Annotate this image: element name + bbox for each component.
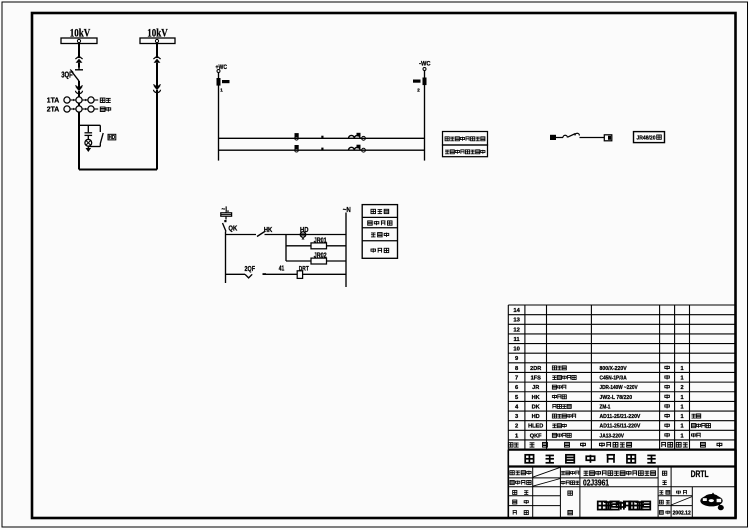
svg-text:2: 2 xyxy=(515,424,518,430)
svg-text:1: 1 xyxy=(680,404,683,410)
svg-text:DRTL: DRTL xyxy=(691,469,709,479)
svg-text:HD: HD xyxy=(109,135,116,141)
svg-text:HK: HK xyxy=(532,395,540,401)
svg-text:JDR-140W ~220V: JDR-140W ~220V xyxy=(600,385,638,391)
svg-text:1: 1 xyxy=(680,376,683,382)
svg-text:HK: HK xyxy=(264,225,273,234)
svg-text:12: 12 xyxy=(513,327,519,333)
svg-text:10kV: 10kV xyxy=(70,28,91,40)
svg-text:JR: JR xyxy=(532,385,539,391)
svg-text:1: 1 xyxy=(680,395,683,401)
svg-text:QK: QK xyxy=(228,223,237,232)
svg-text:AD11-25/21-220V: AD11-25/21-220V xyxy=(600,414,641,420)
svg-text:1: 1 xyxy=(680,433,683,439)
svg-text:2002.12: 2002.12 xyxy=(673,510,691,516)
svg-text:JR48/20: JR48/20 xyxy=(637,135,656,141)
svg-text:14: 14 xyxy=(513,308,520,314)
svg-text:10kV: 10kV xyxy=(147,28,168,40)
svg-text:QKF: QKF xyxy=(530,433,542,439)
svg-text:ZM-1: ZM-1 xyxy=(600,404,611,410)
svg-text:2TA: 2TA xyxy=(47,105,60,114)
svg-text:-WC: -WC xyxy=(419,60,431,67)
svg-text:7: 7 xyxy=(515,376,518,382)
svg-text:C45N-1P/3A: C45N-1P/3A xyxy=(600,376,627,382)
svg-text:1TA: 1TA xyxy=(47,96,60,105)
svg-text:AD11-25/11-220V: AD11-25/11-220V xyxy=(600,424,641,430)
svg-text:1: 1 xyxy=(680,366,683,372)
svg-text:11: 11 xyxy=(514,337,521,343)
svg-text:2DR: 2DR xyxy=(530,366,541,372)
svg-text:~N: ~N xyxy=(343,205,351,214)
svg-text:HD: HD xyxy=(532,414,540,420)
svg-text:02J3961: 02J3961 xyxy=(583,478,609,488)
svg-text:JA13-220V: JA13-220V xyxy=(600,433,625,439)
svg-text:1: 1 xyxy=(680,414,683,420)
svg-text:HD: HD xyxy=(300,225,309,234)
svg-text:1FS: 1FS xyxy=(531,376,542,382)
svg-text:3QF: 3QF xyxy=(61,71,73,80)
svg-text:41: 41 xyxy=(279,266,285,273)
svg-text:DK: DK xyxy=(532,404,540,410)
svg-text:2: 2 xyxy=(680,385,683,391)
svg-text:JR01: JR01 xyxy=(314,238,327,245)
svg-text:1: 1 xyxy=(680,424,683,430)
svg-text:JW2-L 78/220: JW2-L 78/220 xyxy=(600,395,633,401)
svg-text:JR02: JR02 xyxy=(314,253,327,260)
svg-text:HLED: HLED xyxy=(528,424,543,430)
svg-text:800/X-220V: 800/X-220V xyxy=(600,366,627,372)
svg-text:2QF: 2QF xyxy=(245,264,256,273)
svg-text:13: 13 xyxy=(513,318,520,324)
svg-text:10: 10 xyxy=(513,347,519,353)
